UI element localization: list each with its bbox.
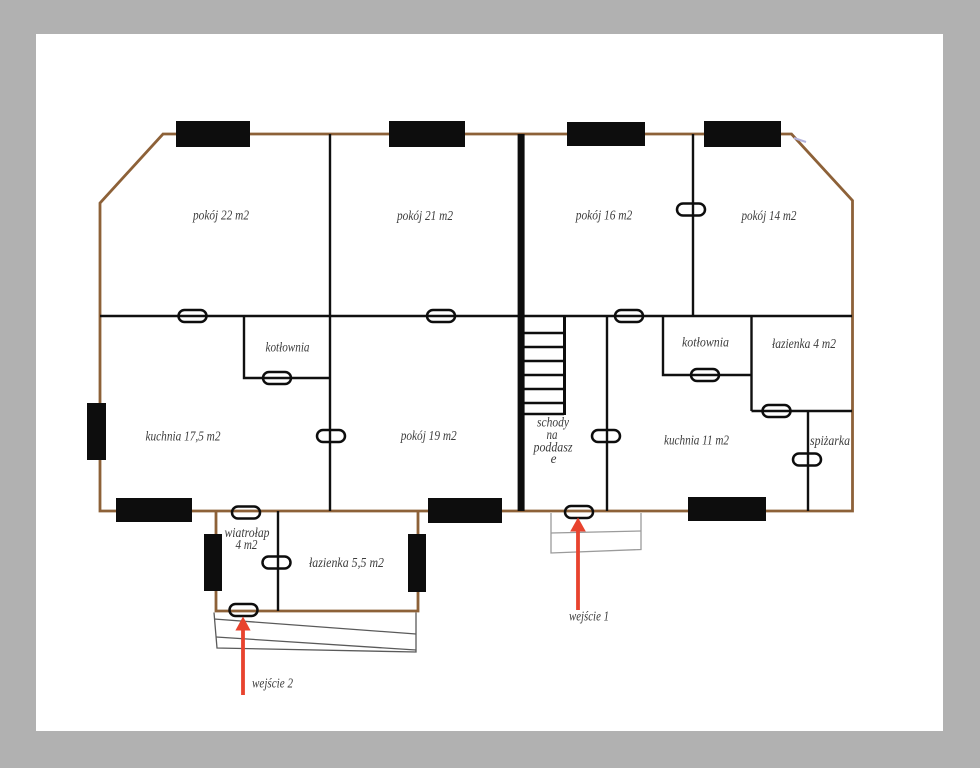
right kotlownia walls	[663, 316, 752, 411]
room label schody na poddasze	[533, 415, 573, 467]
door entrance 1	[565, 506, 593, 518]
svg-text:łazienka 4 m2: łazienka 4 m2	[772, 336, 836, 351]
entrance 2 steps	[214, 613, 416, 653]
svg-text:pokój 14 m2: pokój 14 m2	[741, 208, 797, 223]
svg-text:4 m2: 4 m2	[236, 537, 258, 552]
svg-text:łazienka 5,5 m2: łazienka 5,5 m2	[309, 555, 384, 570]
arrow entrance 1	[570, 518, 586, 611]
window extension right	[408, 534, 426, 592]
wire: main horizontal divider wall y=316	[100, 315, 852, 317]
entrance 1 steps	[551, 513, 641, 553]
wall between lazienka 4 and spizarka	[752, 410, 853, 412]
svg-text:kuchnia 17,5 m2: kuchnia 17,5 m2	[146, 429, 221, 444]
door spizarka	[793, 454, 821, 466]
wall between wiatrolap and lazienka 5,5	[277, 511, 279, 611]
window pokoj 21	[389, 121, 465, 147]
door left kotlownia	[263, 372, 291, 384]
window pokoj 16	[567, 122, 645, 146]
svg-text:kotłownia: kotłownia	[266, 340, 310, 355]
wire: wall right of stairs x=607	[606, 316, 608, 511]
svg-text:e: e	[551, 451, 557, 466]
door kuchnia / pokoj 19	[317, 430, 345, 442]
door kuchnia / wiatrolap	[232, 507, 260, 519]
svg-text:kotłownia: kotłownia	[682, 335, 729, 350]
window kuchnia 17,5 left wall	[87, 403, 106, 460]
door pokoj 21	[427, 310, 455, 322]
window extension left	[204, 534, 222, 591]
thick central structural wall	[518, 134, 525, 511]
door entrance 2	[230, 604, 258, 616]
staircase right rail	[563, 316, 566, 415]
window bottom left	[116, 498, 192, 522]
left kotlownia walls	[244, 316, 330, 378]
door pokoj 22	[179, 310, 207, 322]
window pokoj 22	[176, 121, 250, 147]
arrow entrance 2	[235, 617, 250, 696]
door schody area	[592, 430, 620, 442]
door between pokoj 16 and 14	[677, 204, 705, 216]
wire: wall between pokoj 16 and 14	[692, 134, 694, 316]
door wiatrolap / lazienka 5,5	[263, 557, 291, 569]
svg-text:pokój 16 m2: pokój 16 m2	[575, 208, 633, 223]
svg-text:wejście 2: wejście 2	[252, 676, 293, 691]
door lazienka 4 / spizarka	[763, 405, 791, 417]
svg-text:spiżarka: spiżarka	[810, 433, 850, 448]
window pokoj 14	[704, 121, 781, 147]
door pokoj 16	[615, 310, 643, 322]
svg-text:wejście 1: wejście 1	[569, 609, 609, 624]
stray lavender mark at top-right chamfer	[794, 138, 806, 142]
spizarka left wall	[807, 411, 809, 511]
exterior wall outline	[100, 134, 853, 511]
staircase treads	[524, 333, 564, 414]
exterior wall of entry extension	[216, 511, 418, 611]
svg-text:pokój 21 m2: pokój 21 m2	[396, 208, 453, 223]
room label wiatrolap 4 m2	[225, 525, 270, 552]
svg-text:pokój 22 m2: pokój 22 m2	[192, 208, 249, 223]
window bottom centre	[428, 498, 502, 523]
svg-text:pokój 19 m2: pokój 19 m2	[400, 428, 457, 443]
svg-text:kuchnia 11 m2: kuchnia 11 m2	[664, 433, 729, 448]
door right kotlownia	[691, 369, 719, 381]
window bottom right	[688, 497, 766, 521]
wire: central vertical wall x=330	[329, 134, 331, 511]
